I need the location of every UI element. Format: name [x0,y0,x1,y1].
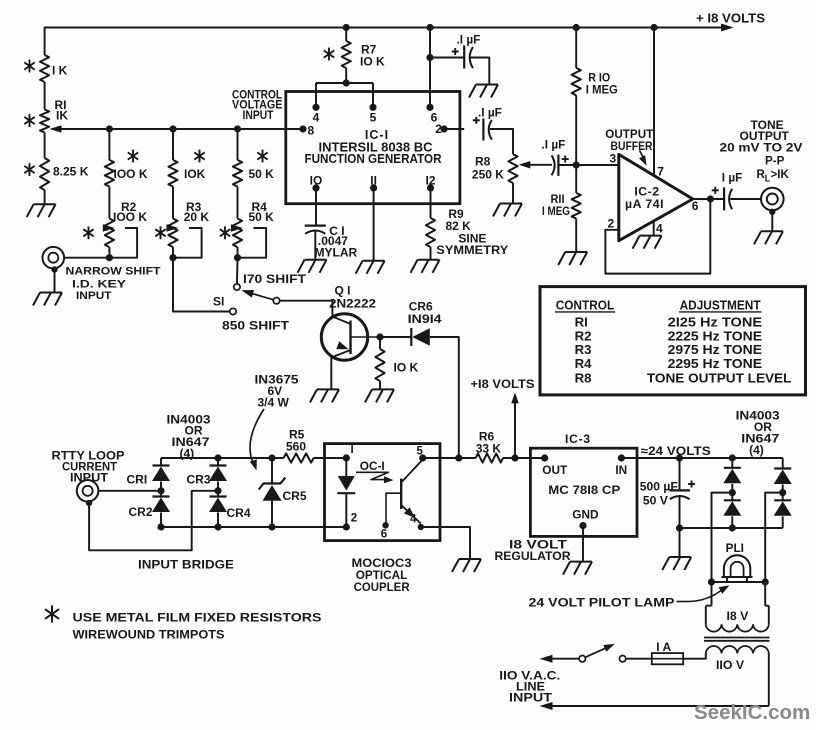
svg-text:8.25 K: 8.25 K [53,164,89,178]
wire control voltage bus [60,128,303,130]
svg-text:50 K: 50 K [249,210,275,224]
wire line input neutral [540,702,769,710]
svg-text:WIREWOUND TRIMPOTS: WIREWOUND TRIMPOTS [73,628,225,642]
svg-text:>IK: >IK [771,168,790,181]
diode CR1 [152,458,170,491]
wire +18V top rail [45,24,734,32]
svg-text:R3: R3 [575,342,592,357]
transformer core [704,638,770,641]
label CR3 [187,472,211,486]
node R7 bottom [343,79,350,86]
svg-text:IOK: IOK [184,167,206,181]
ground R11 [558,252,587,265]
wire bridge2 right side [782,458,784,469]
svg-text:IC-3: IC-3 [565,432,591,446]
svg-text:5: 5 [370,111,377,125]
svg-text:I MEG: I MEG [542,204,570,218]
svg-text:I8 V: I8 V [727,609,750,623]
wire bridge top rail [161,457,284,459]
node bus-100K [106,125,113,132]
wiper arrow R4 [231,224,266,257]
table row R1 [575,315,763,330]
label 850 SHIFT [222,319,290,333]
label 24 VOLTS [641,444,711,458]
ground 10K [365,389,394,402]
potentiometer R2 100K [105,219,114,248]
diode D2 output bridge [723,493,741,528]
potentiometer R3 20K [168,219,177,248]
wiper arrow R2 [103,224,137,257]
pin 4 OC-1 [410,514,424,531]
label +18 VOLTS keyed [471,377,535,391]
wire line input hot [540,655,580,663]
svg-text:NARROW SHIFT: NARROW SHIFT [66,266,161,278]
pin 11 IC-1 [370,174,377,261]
resistor 10K fixed [168,160,177,187]
svg-text:I.D. KEY: I.D. KEY [72,278,127,290]
label MOC1003 OPTICAL COUPLER [352,556,412,594]
svg-text:IN: IN [615,463,627,477]
node R2 bottom [106,254,113,261]
svg-text:50 V: 50 V [643,494,669,508]
label .1uF pin2 [478,106,502,120]
label TONE OUTPUT [720,118,803,168]
diode D1 output bridge [723,458,741,493]
pin 4 IC-2 [654,221,663,235]
node CR3 top [214,454,221,461]
wire node to R11 [575,165,577,193]
ground R9 [411,260,440,273]
table row R8 [575,370,792,385]
node bridge2 col1 mid [729,489,736,496]
wire R6 to IC-3 [503,457,545,459]
asterisk 50K [257,150,267,163]
switch blade line [585,644,615,657]
node R10 rail [573,24,580,31]
wire R10 to node [575,95,577,165]
node 500uF bottom [676,524,683,531]
svg-text:20 mV TO 2V: 20 mV TO 2V [720,142,803,155]
label 1K [52,64,68,78]
label IN4003 OR IN647 (4) right [736,409,780,458]
switch S1 pole [273,298,279,304]
svg-text:50 K: 50 K [249,167,275,181]
ground Q1 [310,389,339,402]
label 18V winding [727,609,750,623]
svg-text:INPUT: INPUT [243,108,275,122]
capacitor 1uF output [712,187,733,211]
asterisk R4 [220,226,230,239]
asterisk R7 [324,48,334,61]
svg-text:INPUT: INPUT [509,691,553,705]
LED OC-1 [337,458,355,527]
svg-text:MC 78I8 CP: MC 78I8 CP [548,483,620,497]
node lamp left [708,578,715,585]
node CR4 bottom [214,523,221,530]
label C1 [315,224,358,259]
label R2 [113,200,147,224]
pin 6 IC-1 [426,28,437,125]
pin 2 IC-1 [435,122,464,136]
svg-text:(4): (4) [749,443,764,457]
transformer secondary 18V [706,582,769,632]
potentiometer R1 1K [40,110,49,133]
wire connector to bridge [98,490,161,492]
resistor 10K base [375,349,384,381]
svg-text:2: 2 [608,216,615,230]
pin 6 label [692,199,699,213]
svg-text:I: I [351,444,354,456]
svg-text:CR5: CR5 [283,489,307,503]
node pin6 rail [426,24,433,31]
svg-text:REGULATOR: REGULATOR [495,549,571,563]
connector tone output [761,188,784,211]
wiper arrow R3 [166,224,201,257]
table row R3 [575,342,763,357]
wire R7 bottom [345,68,347,83]
wire R11 to ground [575,219,577,252]
svg-text:IK: IK [56,108,68,122]
svg-text:I K: I K [52,64,68,78]
capacitor 500uF [670,481,696,500]
svg-text:250 K: 250 K [472,168,504,182]
label CR6 [408,300,442,326]
label RL>1K [757,168,790,184]
label 1A [656,640,671,654]
transformer primary 110V [683,646,769,706]
regulator U3 IC-3 box [530,448,637,536]
svg-text:IOO K: IOO K [113,210,147,224]
svg-text:µA 74I: µA 74I [625,197,664,211]
label 10K [184,167,206,181]
svg-text:.I µF: .I µF [542,137,566,151]
label RTTY LOOP CURRENT INPUT [52,449,125,484]
svg-text:IO K: IO K [360,54,385,68]
label 18 VOLT REGULATOR [495,538,571,564]
wire lamp rail [712,581,766,583]
IC U1 box IC-1 [286,92,460,204]
label MC7818CP [548,483,620,497]
asterisk R2 [83,226,93,239]
label 500uF 50V [640,480,678,508]
svg-text:USE METAL FILM FIXED RESIS: USE METAL FILM FIXED RESISTORS [73,611,322,625]
wire 500uF top [679,458,681,490]
asterisk R1 [24,114,34,127]
ground pin 11 [356,261,385,274]
wire bridge bottom rail [161,526,346,528]
contact 850 shift [230,308,236,314]
node R7 rail [343,24,350,31]
svg-text:I A: I A [656,640,671,654]
node CR3-CR4 [214,487,221,494]
svg-text:IN9I4: IN9I4 [408,312,442,326]
node CR1-CR2 [157,487,164,494]
wire cap to R8 [490,129,513,154]
connector NARROW SHIFT input [43,247,65,269]
label R9 sine symmetry [436,207,508,257]
wire 8.25K to ground [44,190,46,204]
table row R2 [575,328,763,343]
svg-text:Q I: Q I [335,283,351,297]
ground left column [27,204,56,217]
wire cap to node [558,164,576,166]
svg-text:2: 2 [351,513,357,525]
wire pin5 out [423,457,459,459]
wire S1 to Q1 [280,301,333,318]
label R10 [586,70,618,96]
node R6 right [511,454,518,461]
label IN3675 6V 3/4W [255,372,299,409]
label R7 [360,42,385,68]
pin 7 IC-2 [654,28,664,179]
ground OC-1 pin4 [452,559,481,572]
label PL1 [726,541,744,555]
wire CR6 to keying line [430,337,459,458]
svg-text:2: 2 [435,122,442,136]
svg-text:P-P: P-P [765,154,785,167]
svg-text:I MEG: I MEG [586,82,618,96]
svg-text:OC-I: OC-I [360,459,385,473]
wire base to CR6 [380,336,411,338]
wire R7 top [345,28,347,42]
svg-text:MYLAR: MYLAR [315,245,358,259]
resistor R10 1MEG [572,68,581,95]
ground tone jack [754,231,783,244]
pin 2 feedback wire [605,199,710,274]
node output [707,195,714,202]
svg-text:2295 Hz TONE: 2295 Hz TONE [668,356,763,371]
node bridge2 col1 bottom [729,524,736,531]
svg-text:IO K: IO K [394,361,419,375]
svg-text:8: 8 [308,124,315,138]
node CR2 bottom [157,523,164,530]
wire R3 bottom [172,247,174,258]
svg-text:ADJUSTMENT: ADJUSTMENT [680,297,761,312]
label 1uF output [722,170,743,184]
diode CR2 [152,491,170,527]
node CR1 top [160,457,162,459]
wire bridge return [89,491,218,551]
wire bridge2 tap left [712,493,733,582]
wire bus to 50K [237,129,239,160]
svg-text:4: 4 [656,222,663,236]
wire Q1 emitter to ground [330,358,332,390]
resistor 8.25K [40,158,49,190]
asterisk footnote [45,605,59,622]
wire 10K to R3 [172,187,174,219]
svg-text:6: 6 [692,199,699,213]
node bus-50K [234,125,241,132]
wire CR5 top [271,458,273,484]
svg-text:33 K: 33 K [476,441,502,455]
pin 8 IC-1 [299,124,314,138]
wiper arrow R8 [519,161,552,169]
svg-text:.I µF: .I µF [478,106,502,120]
transistor Q1 2N2222 [321,314,380,360]
svg-text:IO: IO [310,174,323,188]
wire 500uF bottom [679,497,681,529]
label IC-3 [565,432,591,446]
wire bus to 100K [108,129,110,160]
watermark SeekIC.com [694,701,810,724]
wire cap to ground top [471,58,490,85]
wire to ground 500uF [679,528,681,557]
potentiometer R8 250K [508,154,517,183]
svg-text:24 VOLT PILOT LAMP: 24 VOLT PILOT LAMP [529,596,675,610]
ground IC-3 [563,562,592,575]
asterisk 10K [194,150,204,163]
label INPUT BRIDGE [138,557,234,571]
table header CONTROL [555,297,615,312]
label +18 VOLTS [696,12,765,26]
svg-text:I70 SHIFT: I70 SHIFT [243,272,307,286]
wire connector to ground [54,270,56,293]
label OUTPUT BUFFER [605,127,654,153]
node CR5 top [268,454,275,461]
svg-text:7: 7 [657,164,664,178]
label R3 [184,200,210,224]
capacitor .1uF pin2 [473,117,492,141]
arrow buffer pointer [639,151,647,166]
resistor R5 560 [284,453,314,462]
svg-text:INPUT: INPUT [76,290,112,302]
wire R4 bottom [237,247,239,258]
optocoupler OC-1 box [325,444,441,541]
label CONTROL VOLTAGE INPUT [232,87,283,122]
label .1uF pin6 [457,33,481,47]
label R4 [249,200,275,224]
pin 12 IC-1 [425,174,435,218]
label GND [572,507,599,521]
node bridge2 col2 mid [779,489,786,496]
label S1 [213,295,224,309]
asterisk R3 [155,226,165,239]
pin GND IC-3 [579,522,586,562]
wire 100K to R2 [108,187,110,219]
svg-text:3/4 W: 3/4 W [258,396,290,410]
pin 3 label [610,152,617,166]
node connector shell [51,266,57,272]
capacitor .1uF buffer input [552,155,569,176]
label 24 VOLT PILOT LAMP [529,585,730,609]
svg-text:IOO K: IOO K [114,167,148,181]
resistor 100K fixed [105,160,114,187]
wire 10K to ground [379,381,381,389]
svg-text:+ I8 VOLTS: + I8 VOLTS [696,12,765,26]
resistor R7 10K [342,41,351,68]
label 10K base [394,361,419,375]
resistor R11 1MEG [572,193,581,219]
node pin7 rail [650,24,657,31]
wire 8.25K top [44,133,46,159]
svg-text:BUFFER: BUFFER [611,139,653,153]
svg-text:FUNCTION GENERATOR: FUNCTION GENERATOR [305,152,442,166]
label CR5 [283,489,307,503]
svg-text:TONE OUTPUT LEVEL: TONE OUTPUT LEVEL [647,370,792,385]
diode D3 output bridge [774,469,792,493]
label OC-1 [360,459,385,473]
wire R2 bottom [108,247,110,258]
svg-text:CR3: CR3 [187,472,211,486]
label IN4003 OR IN647 (4) left [167,413,211,461]
node Q1 base [376,333,383,340]
wire cap to tone jack [730,198,761,200]
phototransistor OC-1 [386,460,423,524]
wire R4 to 170 contact [236,258,239,284]
svg-text:II: II [370,174,377,188]
connector RTTY loop input [77,480,99,502]
diode CR3 [209,458,227,491]
capacitor C1 [305,226,326,260]
svg-text:GND: GND [572,507,599,521]
svg-text:560: 560 [286,440,306,454]
label Q1 [329,283,376,310]
svg-text:INPUT BRIDGE: INPUT BRIDGE [138,557,234,571]
wiper arrow R1 [50,125,62,133]
switch contact left [579,656,585,662]
svg-text:4: 4 [410,514,417,526]
diode D4 output bridge [774,493,792,528]
wire pin6 to cap [430,57,464,59]
wire keying to R6 [459,457,476,459]
svg-text:20 K: 20 K [184,210,210,224]
wire R8 to ground [512,183,514,204]
label IC-2 [625,184,664,211]
contact 170 shift [234,284,240,290]
label CR4 [227,506,251,520]
wire base node to 10K [379,337,381,349]
resistor 50K fixed [233,160,242,187]
node RTTY shell [86,500,92,506]
wire pin4 to ground [421,527,470,559]
wire R3 to 850 contact [173,258,230,312]
label CR2 [129,505,153,519]
svg-text:850 SHIFT: 850 SHIFT [222,319,290,333]
svg-text:R8: R8 [475,154,491,168]
svg-text:I µF: I µF [722,170,743,184]
node 500uF top [676,454,683,461]
ground narrow shift [33,293,62,306]
pin 10 IC-1 [310,174,323,225]
node R4 bottom [234,254,241,261]
table row R4 [575,356,763,371]
label R11 [542,192,570,218]
svg-text:R8: R8 [575,370,592,385]
wire 50K to R4 [237,187,239,219]
node lamp right [762,578,769,585]
label 100K [114,167,148,181]
label 110V winding [716,658,745,672]
wire jack to ground [771,212,773,232]
potentiometer R4 50K [233,219,242,248]
svg-text:≈24 VOLTS: ≈24 VOLTS [641,444,711,458]
node pin6 cap branch [426,54,433,61]
node bridge2 col1 top [729,454,736,461]
pin IN IC-3 [615,454,627,477]
ground top cap [469,85,498,98]
svg-text:4: 4 [313,111,320,125]
svg-text:500 µF: 500 µF [640,480,678,494]
wire rail to R10 [575,28,577,68]
svg-text:+I8 VOLTS: +I8 VOLTS [471,377,535,391]
zener CR5 [259,478,286,528]
svg-text:.I µF: .I µF [457,33,481,47]
arrow LED light [356,472,394,483]
svg-text:SeekIC.com: SeekIC.com [694,701,810,724]
ground R8 [493,204,522,217]
diode CR6 1N914 [411,328,430,346]
svg-text:PLI: PLI [726,541,744,555]
